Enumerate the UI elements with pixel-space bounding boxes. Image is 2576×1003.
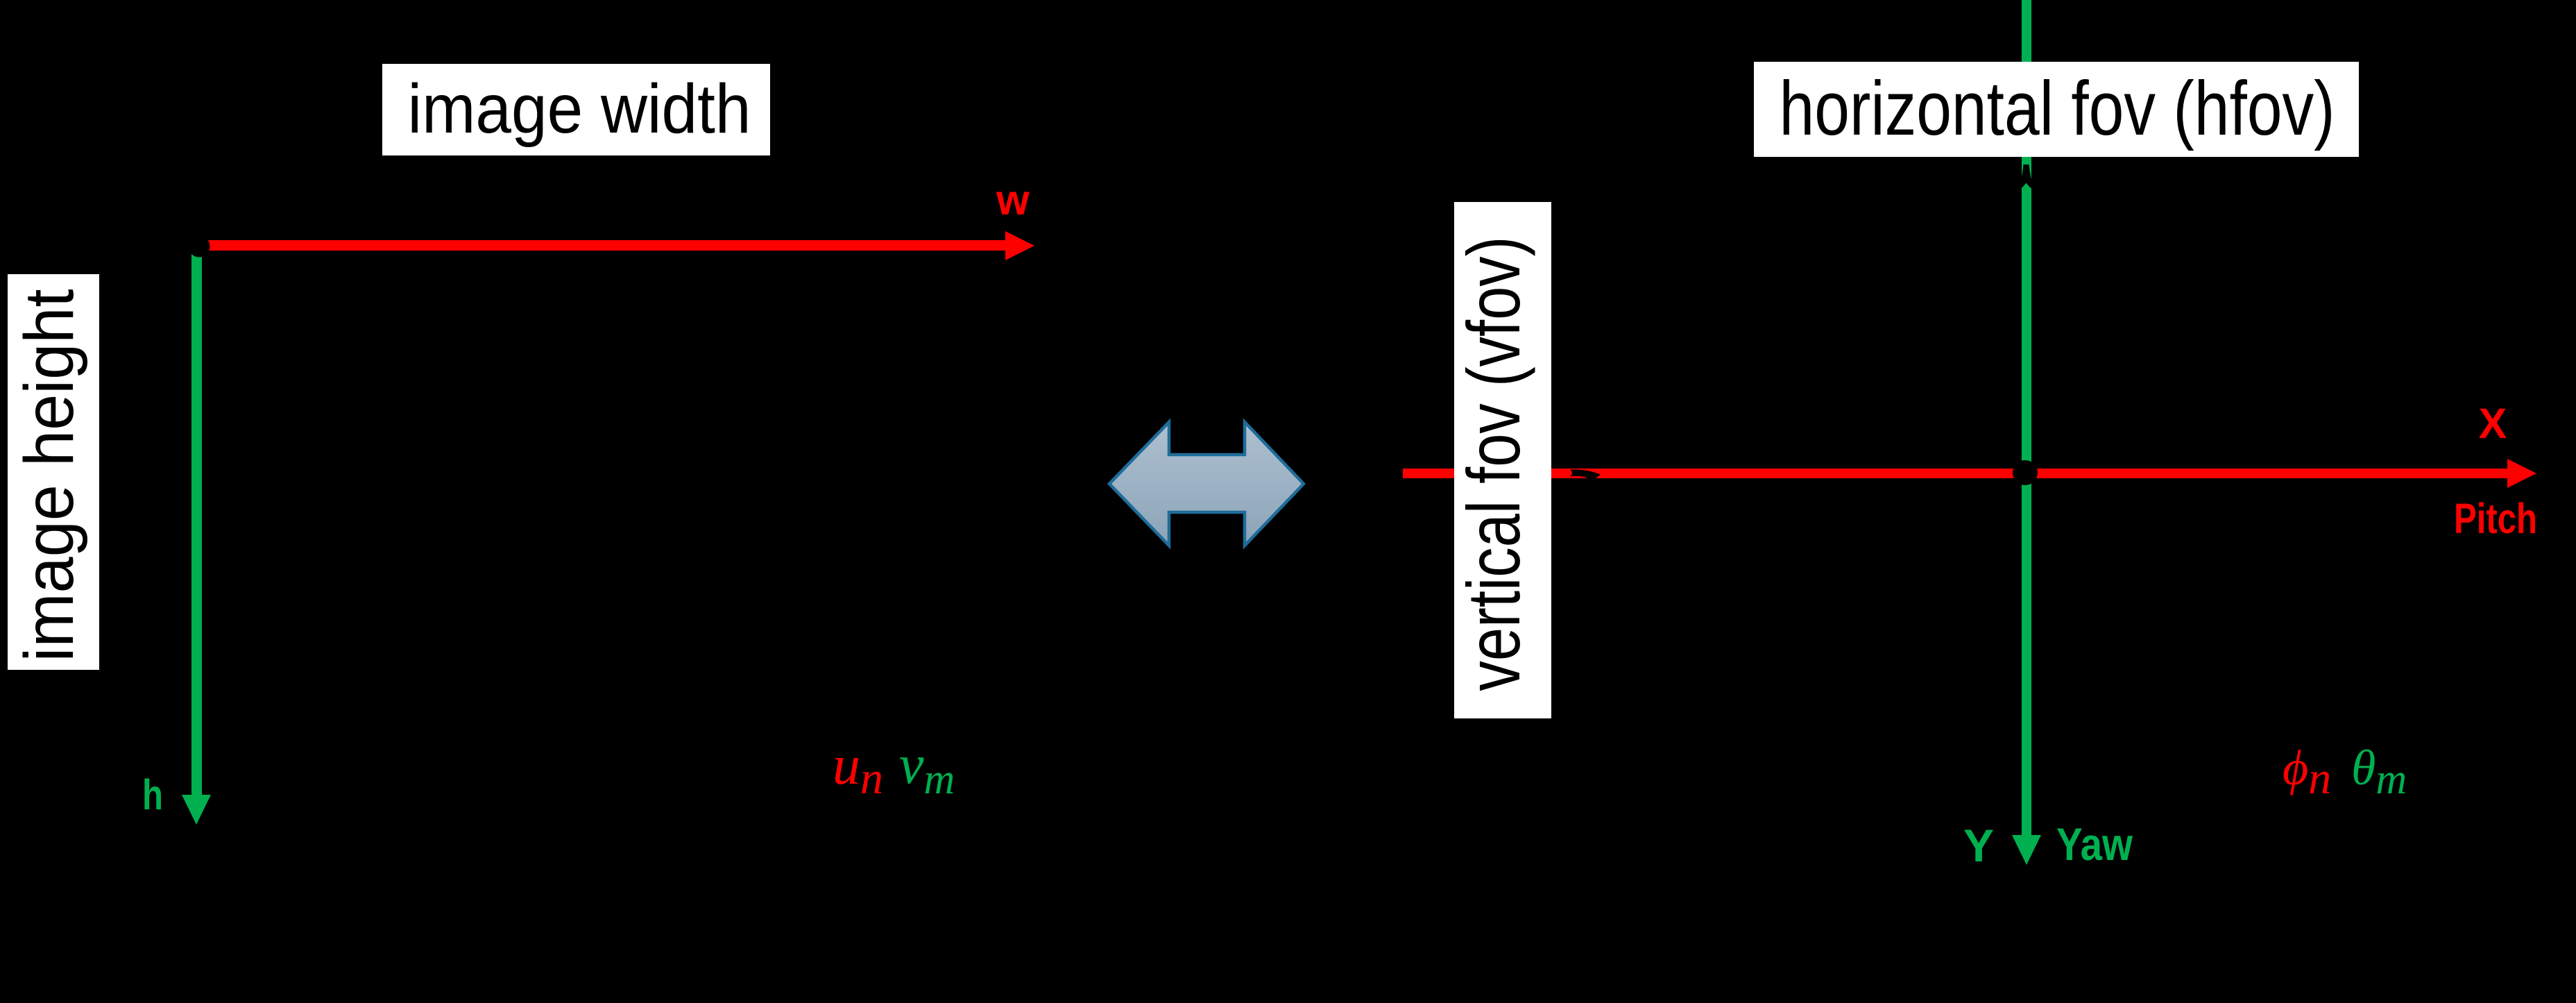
node: origin dot (right figure) [2013, 460, 2038, 485]
green Y-axis arrowhead [2012, 835, 2041, 865]
label box: image height [8, 274, 99, 670]
double-headed arrow (center) [1109, 422, 1304, 546]
wire: red X-axis shaft (right figure) [1403, 469, 2507, 478]
red X-axis arrowhead [2507, 459, 2536, 488]
svg-text:Yaw: Yaw [2056, 818, 2133, 870]
svg-text:image height: image height [10, 289, 88, 661]
svg-text:Pitch: Pitch [2454, 495, 2537, 542]
svg-text:image width: image width [408, 70, 751, 148]
label box: horizontal fov (hfov) [1754, 62, 2359, 157]
svg-text:w: w [996, 176, 1030, 224]
svg-text:Y: Y [1963, 820, 1994, 871]
green h-axis arrowhead [182, 795, 211, 825]
wire: green Y-axis shaft (right figure) [2022, 0, 2031, 835]
svg-text:horizontal fov (hfov): horizontal fov (hfov) [1780, 66, 2335, 151]
wire: red w-axis shaft (left figure) [199, 240, 1006, 251]
label box: image width [382, 64, 770, 155]
red w-axis arrowhead [1005, 231, 1034, 260]
black rotation-arrowhead on red axis [1570, 469, 1601, 484]
black rotation-arrowhead on green axis [2016, 165, 2036, 191]
label box: vertical fov (vfov) [1454, 202, 1551, 718]
node: origin dot (left figure) [189, 236, 210, 258]
wire: green h-axis shaft (left figure) [191, 246, 202, 795]
svg-text:h: h [142, 771, 163, 818]
svg-text:X: X [2479, 400, 2507, 447]
svg-text:vertical fov (vfov): vertical fov (vfov) [1451, 237, 1535, 691]
